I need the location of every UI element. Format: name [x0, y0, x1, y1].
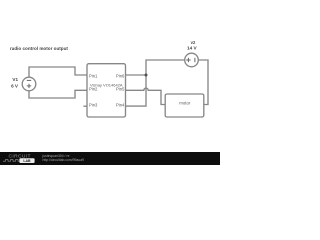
CircuitLab logo: waveform — [3, 160, 19, 162]
wire: V1 bottom to Pin2 — [29, 90, 87, 98]
IC U1 Vishay VO14642A box — [87, 64, 126, 117]
svg-text:http://circuitlab.com/99aua9: http://circuitlab.com/99aua9 — [43, 158, 85, 162]
motor M1 box — [165, 94, 204, 117]
voltage source V1 — [22, 77, 36, 91]
svg-text:radio control motor output: radio control motor output — [10, 46, 68, 51]
svg-text:Pin3: Pin3 — [89, 103, 98, 108]
svg-text:Vishay VO14642A: Vishay VO14642A — [90, 83, 123, 88]
svg-text:14 V: 14 V — [187, 46, 198, 51]
pin 3 stub wire — [83, 105, 87, 107]
wire: motor right to V2 minus — [198, 60, 208, 105]
svg-text:V1: V1 — [12, 77, 18, 82]
svg-text:Pin4: Pin4 — [116, 103, 125, 108]
footer bar — [0, 152, 220, 165]
voltage source V2 — [185, 53, 199, 67]
svg-text:v2: v2 — [191, 40, 196, 45]
svg-text:motor: motor — [179, 101, 191, 106]
wire: Pin4 up to V2 plus — [126, 60, 185, 106]
CircuitLab logo: LAB box — [19, 158, 34, 163]
svg-text:6 V: 6 V — [11, 83, 19, 88]
wire: Pin6 to node — [126, 74, 147, 76]
svg-text:Pin1: Pin1 — [89, 74, 98, 79]
svg-text:LAB: LAB — [23, 159, 31, 163]
junction dot at node (146,75) — [145, 74, 148, 77]
wire: V1 top to Pin1 — [29, 67, 87, 77]
wire: Pin5 to motor left, hop over vertical wire — [126, 88, 166, 104]
svg-text:Pin6: Pin6 — [116, 74, 125, 79]
